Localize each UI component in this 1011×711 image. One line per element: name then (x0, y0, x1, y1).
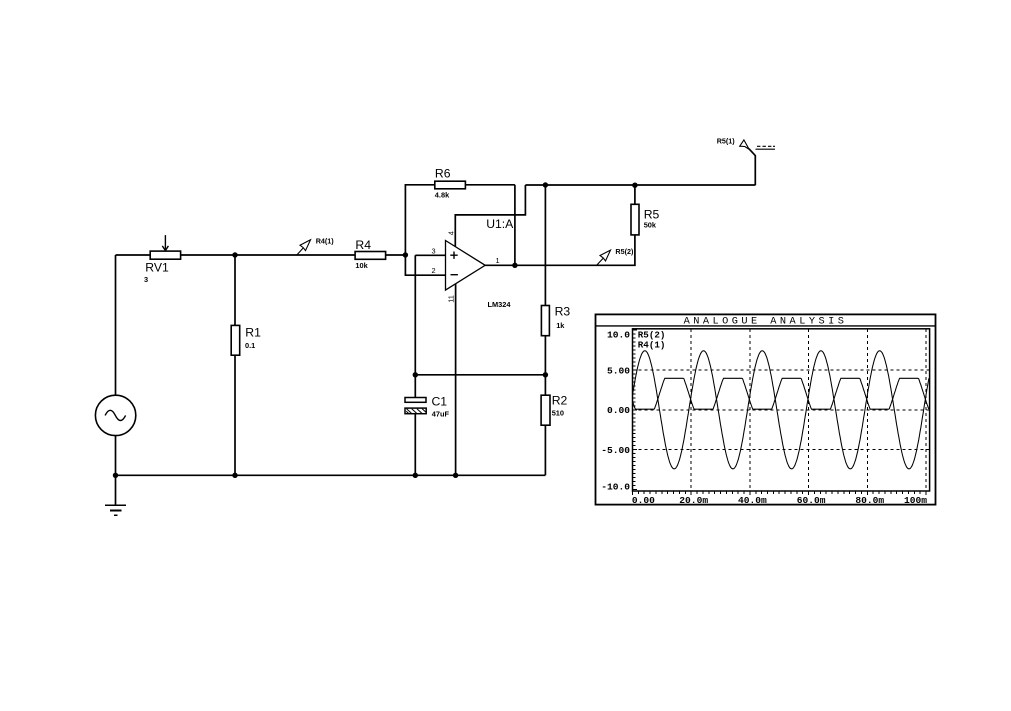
wire: source bottom lead (115, 435, 117, 475)
svg-text:510: 510 (552, 408, 564, 417)
svg-text:R4(1): R4(1) (316, 237, 335, 246)
RV1 wiper arrow (162, 235, 168, 251)
resistor R5 body (631, 204, 639, 235)
wire: R1 branch vertical (234, 255, 236, 475)
resistor R2 body (541, 395, 550, 425)
sine source V1 (95, 395, 135, 435)
wire: mid horizontal C1 to R3/R2 (415, 374, 545, 376)
svg-text:2: 2 (432, 266, 436, 275)
svg-text:R1: R1 (245, 326, 261, 340)
svg-text:R5: R5 (644, 208, 660, 222)
wire: source top lead (115, 255, 117, 395)
graph gridlines (633, 329, 930, 491)
wire: R3-R2 branch vertical (544, 185, 546, 475)
wire: pin 3 lead (415, 254, 445, 256)
graph window frame (596, 314, 936, 504)
wire: top-right rail (525, 184, 755, 186)
trace R5(2) clipped wave (633, 378, 929, 409)
svg-text:-5.00: -5.00 (601, 445, 630, 456)
junction: C1 bottom on ground rail (413, 473, 418, 478)
svg-text:10k: 10k (355, 261, 368, 270)
svg-text:0.1: 0.1 (245, 341, 255, 350)
wire: pin 11 vertical (455, 281, 457, 475)
svg-text:LM324: LM324 (488, 300, 512, 309)
resistor R1 body (231, 325, 240, 355)
graph axis ticks (633, 330, 927, 495)
trace R4(1) sine wave (633, 351, 929, 469)
svg-text:0.00: 0.00 (607, 405, 630, 416)
resistor RV1 (pot) body (150, 251, 180, 259)
wire: main input row y=255 (116, 254, 406, 256)
probe R4(1) (297, 240, 311, 255)
junction: R3-R2 / mid wire (543, 372, 548, 377)
graph legend (638, 330, 666, 351)
wire: pin 4 supply jog (455, 185, 525, 250)
op-amp U1:A triangle (446, 241, 486, 291)
resistor R6 body (435, 181, 466, 189)
svg-text:R6: R6 (435, 166, 451, 180)
wire: pin3/C1 branch vertical (414, 255, 416, 475)
svg-text:1: 1 (496, 256, 500, 265)
wire: R6 feedback loop left and top (405, 185, 515, 255)
ground (105, 505, 126, 515)
svg-text:R5(2): R5(2) (615, 247, 634, 256)
junction: source/ground node (113, 473, 118, 478)
junction: R4/R6/pin2 node (403, 252, 408, 257)
svg-text:80.0m: 80.0m (855, 495, 884, 506)
svg-text:R5(1): R5(1) (717, 137, 736, 146)
wire: ground stub (115, 475, 117, 505)
svg-text:4: 4 (446, 231, 455, 235)
junction: R5 top on top rail (632, 183, 637, 188)
graph plot border (633, 329, 930, 491)
probe R5(1) (740, 140, 775, 149)
wire: pin 2 jog from node (405, 255, 445, 275)
y axis labels (601, 330, 630, 493)
svg-text:0.00: 0.00 (632, 495, 655, 506)
junction: RV1/R1 node (232, 252, 237, 257)
plus symbol (450, 252, 457, 259)
svg-text:1k: 1k (556, 321, 565, 330)
junction: R3 top on top rail (543, 182, 548, 187)
svg-text:60.0m: 60.0m (797, 495, 826, 506)
svg-text:C1: C1 (432, 394, 448, 408)
svg-text:11: 11 (447, 295, 456, 303)
svg-text:4.8k: 4.8k (435, 191, 450, 200)
svg-text:RV1: RV1 (145, 261, 169, 275)
svg-text:3: 3 (432, 246, 436, 255)
svg-text:5.00: 5.00 (607, 365, 630, 376)
svg-text:10.0: 10.0 (607, 330, 630, 341)
svg-text:-10.0: -10.0 (601, 481, 630, 492)
svg-text:40.0m: 40.0m (738, 495, 767, 506)
svg-text:R2: R2 (552, 394, 568, 408)
wire: ground bottom rail (116, 474, 546, 476)
wire: R6 right down to output (514, 185, 516, 265)
svg-text:ANALOGUE ANALYSIS: ANALOGUE ANALYSIS (684, 316, 848, 328)
resistor R3 body (541, 306, 549, 336)
svg-text:R4: R4 (355, 238, 371, 252)
minus symbol (451, 274, 458, 276)
svg-text:R3: R3 (555, 305, 571, 319)
junction: op-amp output node (512, 263, 517, 268)
wire: probe R5(1) stub (749, 149, 755, 186)
junction: C1 branch / mid wire (413, 372, 418, 377)
svg-text:R4(1): R4(1) (638, 339, 666, 350)
junction: pin11 on ground rail (453, 473, 458, 478)
x axis labels (632, 495, 927, 506)
svg-text:100m: 100m (904, 495, 927, 506)
capacitor C1 (405, 398, 426, 414)
svg-text:3: 3 (144, 275, 148, 284)
svg-text:20.0m: 20.0m (679, 495, 708, 506)
wire: output row to R5 bottom (485, 185, 635, 265)
junction: R1 bottom on ground rail (232, 473, 237, 478)
resistor R4 body (355, 252, 386, 260)
svg-text:47uF: 47uF (432, 409, 450, 418)
probe R5(2) (597, 250, 611, 265)
svg-text:U1:A: U1:A (486, 217, 514, 231)
svg-text:50k: 50k (644, 221, 657, 230)
